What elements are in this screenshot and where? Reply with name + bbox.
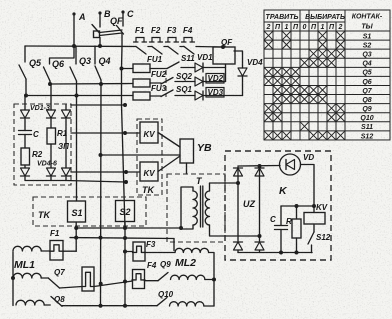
wire Q3 drop (75, 46, 77, 64)
diode UZ4 (255, 242, 264, 250)
junction R-rail (295, 204, 299, 208)
wire bus to QF coil (196, 46, 223, 49)
switch S11 (167, 62, 179, 69)
wire QF coil bottom lead (225, 64, 227, 82)
wire link y105 (71, 104, 125, 106)
fuse FU1 (133, 64, 150, 73)
wire Q6 out (49, 81, 51, 84)
wire S12 bottom (311, 245, 313, 253)
diode UZ3 (234, 242, 243, 250)
junction UZ2-top (258, 164, 262, 168)
fuse F4 symbol (184, 38, 192, 43)
wire F3 left (125, 251, 133, 253)
switch S12 (308, 232, 314, 244)
brake YB (180, 139, 194, 163)
transformer T secondary winding (205, 191, 209, 225)
junction y105-V2 (123, 103, 127, 107)
resistor R2 (21, 148, 30, 165)
wire FU2-SQ2 (150, 82, 161, 84)
wire UZ top bus (238, 165, 280, 168)
motor ML2 winding 2 (171, 275, 205, 279)
switch SQ1 (161, 90, 173, 97)
vertical V2 (122, 105, 126, 228)
bus L (y46) (25, 45, 136, 48)
rectifier UZ right arm (259, 167, 261, 241)
wire bus seg after F3 (180, 46, 184, 48)
phase terminal C (121, 10, 124, 13)
junction C2-bus (279, 251, 283, 255)
diode UZ2 (255, 168, 264, 176)
contact Q10 (157, 298, 167, 306)
wire SQ1-VD3 (175, 95, 195, 97)
junction S1-bus237 (74, 236, 78, 240)
junction ZP-V2 (124, 180, 128, 184)
circuit breaker QF (99, 13, 101, 27)
switch blade F3 (168, 47, 178, 55)
wire UZ bottom bus (238, 252, 312, 254)
wire KV1 feed (71, 132, 140, 134)
diode VD1 (195, 63, 203, 72)
wire F1 out (63, 250, 76, 252)
label VD3 (206, 88, 224, 98)
diode VD1a (24, 96, 26, 111)
junction Q5-busB (24, 94, 28, 98)
motor ML2 winding 3 (170, 302, 204, 306)
contact Q3 (70, 67, 77, 81)
wire KV1-YB (158, 133, 180, 148)
wire F4 out (145, 280, 159, 282)
motor ML2 winding 1 (175, 248, 209, 252)
junction V2-bus237 (123, 236, 127, 240)
brake rectifier box ZP (14, 104, 71, 185)
junction YB-V1 (99, 153, 103, 157)
wire VD3 out (203, 95, 243, 97)
mech link S11-SQ1 (165, 70, 167, 97)
wire YB bottom (186, 163, 188, 174)
wire YB feed (101, 154, 181, 156)
junction row3-V1 (99, 304, 103, 308)
wire Q6 elbow (50, 46, 75, 64)
motor ML1 winding 2 (13, 273, 41, 278)
diode VD2 (195, 77, 203, 86)
contact Q6 (44, 67, 51, 81)
label VD2 (206, 74, 224, 84)
wire FU1-S11 (150, 68, 167, 70)
diode VD3a (62, 110, 71, 118)
table grid (264, 10, 390, 140)
wire bus seg after F2 (164, 46, 168, 48)
wire VD4 to VD3 row (242, 77, 244, 96)
junction F3-V2 (123, 250, 127, 254)
fuse F1 (50, 241, 63, 261)
wire UZ arm bottoms (237, 250, 239, 253)
fuse F2 (82, 267, 94, 291)
contact Q7 (48, 278, 59, 288)
wire ZP bottom rail (25, 177, 66, 181)
junction bus228-T (179, 226, 183, 230)
wire brake drop (173, 239, 175, 251)
capacitor C (24, 119, 26, 131)
wire lamp right (301, 165, 315, 207)
rectifier UZ left arm (237, 167, 239, 241)
diode VD5a (47, 168, 56, 176)
wire Q3 out (76, 81, 78, 96)
junction Q3-busB (75, 94, 79, 98)
wire Q4 drop (94, 46, 96, 64)
junction S2-bus228 (123, 226, 127, 230)
contact Q4 (95, 66, 101, 80)
contact Q8 (51, 297, 62, 307)
bus y228 (76, 227, 181, 229)
wire F3 out (145, 252, 175, 254)
junction ML2 star (212, 278, 216, 282)
wire RC rail (281, 205, 314, 207)
signal lamp VD (280, 154, 301, 175)
wire D6 column (65, 119, 67, 168)
junction A-bus (72, 44, 76, 48)
junction sec-UZleft (236, 181, 240, 185)
fuse F3 symbol (168, 38, 176, 43)
vertical V1 (100, 84, 103, 306)
wire QF right to VD4 (234, 51, 243, 68)
sensor S2 (116, 201, 135, 222)
wire Q7-F2 (60, 287, 83, 289)
wire FU3-SQ1 (150, 95, 161, 97)
wire T secondary bottom (210, 225, 260, 236)
wire KV3 bottom (313, 224, 315, 232)
phase terminal B (98, 11, 101, 14)
wire T secondary top (210, 183, 239, 191)
fuse F1 symbol (136, 38, 144, 43)
QF release coil box (213, 47, 235, 64)
junction row3-V2 (123, 304, 127, 308)
wire S1 top (76, 96, 78, 202)
wire C drop 2 (121, 69, 123, 106)
junction row2-V2 (123, 280, 127, 284)
junction sec-UZright (258, 234, 262, 238)
transformer T core (200, 186, 202, 227)
wire D3 top (65, 105, 67, 110)
junction KV2-V2 (124, 170, 128, 174)
resistor R1 (50, 119, 52, 128)
switch blade F4 (184, 47, 194, 55)
resistor R (296, 206, 298, 219)
contact Q9 (158, 273, 168, 281)
diode VD6a (62, 168, 71, 176)
junction C-FU1 (120, 67, 124, 71)
thermal box TK2 (33, 197, 146, 226)
fuse FU3 (133, 92, 150, 100)
relay unit box K (225, 151, 331, 260)
bus B (y95.5) (26, 95, 133, 97)
diode VD4 (238, 68, 247, 76)
junction bus-QFcoil (221, 45, 225, 49)
relay KV3 (313, 206, 315, 213)
transformer box T (167, 174, 225, 242)
switch SQ2 (161, 78, 173, 85)
junction S1-bus228 (74, 226, 78, 230)
bus A (y84) (50, 83, 133, 86)
bus y237 (brake feed) (70, 237, 174, 240)
wire Q4 out (100, 80, 102, 84)
junction B-bus (98, 44, 102, 48)
switch blade F1 (136, 47, 146, 55)
switch blade F2 (152, 47, 162, 55)
motor ML1 winding 1 (12, 252, 14, 306)
junction R-bus (295, 251, 299, 255)
fuse FU2 (133, 79, 150, 87)
wire bus seg after F1 (148, 46, 152, 48)
wire KV2-YB (158, 156, 180, 172)
capacitor C2 (280, 206, 282, 226)
wire VD1 out (203, 67, 226, 69)
wire Q5 drop (24, 46, 26, 62)
fuse F2 symbol (152, 38, 160, 43)
wire SQ2-VD2 (175, 81, 195, 83)
wire C drop (121, 47, 124, 69)
fuse F4 (133, 270, 145, 289)
motor ML1 winding 3 (16, 300, 44, 305)
junction V1-bus237 (99, 236, 103, 240)
junction KV-rail (312, 204, 316, 208)
wire S11-VD1 (181, 67, 195, 69)
wire Q5 out (25, 79, 27, 96)
junction KV1-V2 (123, 131, 127, 135)
wire S1 bottom (75, 222, 77, 251)
wire VD2 out (203, 81, 226, 83)
wire FU1 left (122, 68, 134, 70)
diode UZ1 (234, 168, 243, 176)
sensor S1 (68, 201, 86, 222)
junction Q4-busA (99, 82, 103, 86)
wire S2 bottom (124, 222, 126, 307)
diode VD3 (195, 91, 203, 100)
junction row2-V1 (99, 282, 103, 286)
wire Q8 out (62, 305, 158, 307)
relay KV2 (140, 162, 158, 181)
wire F2 out (94, 281, 133, 287)
junction Q6-busA (48, 82, 52, 86)
diode VD2a (50, 84, 52, 110)
brake control box TK (137, 119, 162, 195)
phase terminal A (72, 12, 75, 15)
relay KV1 (140, 122, 158, 143)
fuse F3 (133, 242, 145, 261)
transformer T primary winding (193, 191, 197, 225)
diode VD4a (21, 168, 30, 176)
contact Q5 (19, 65, 26, 79)
wire KV2 feed (71, 171, 140, 173)
wire T primary left (181, 187, 193, 229)
